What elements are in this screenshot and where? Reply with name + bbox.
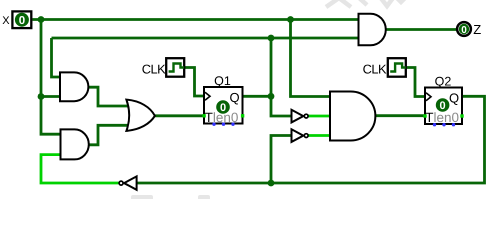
svg-text:CLK: CLK — [142, 62, 166, 77]
svg-text:Tlen0: Tlen0 — [425, 110, 459, 125]
svg-text:Tlen0: Tlen0 — [205, 110, 239, 125]
svg-text:Q1: Q1 — [214, 74, 231, 88]
svg-text:Q: Q — [230, 90, 240, 105]
svg-text:X: X — [2, 15, 10, 27]
svg-text:CLK: CLK — [363, 62, 387, 77]
svg-text:Q: Q — [449, 91, 459, 106]
svg-text:Q2: Q2 — [435, 75, 452, 89]
svg-text:Z: Z — [473, 22, 481, 37]
svg-text:0: 0 — [19, 15, 25, 27]
svg-text:0: 0 — [461, 25, 467, 36]
